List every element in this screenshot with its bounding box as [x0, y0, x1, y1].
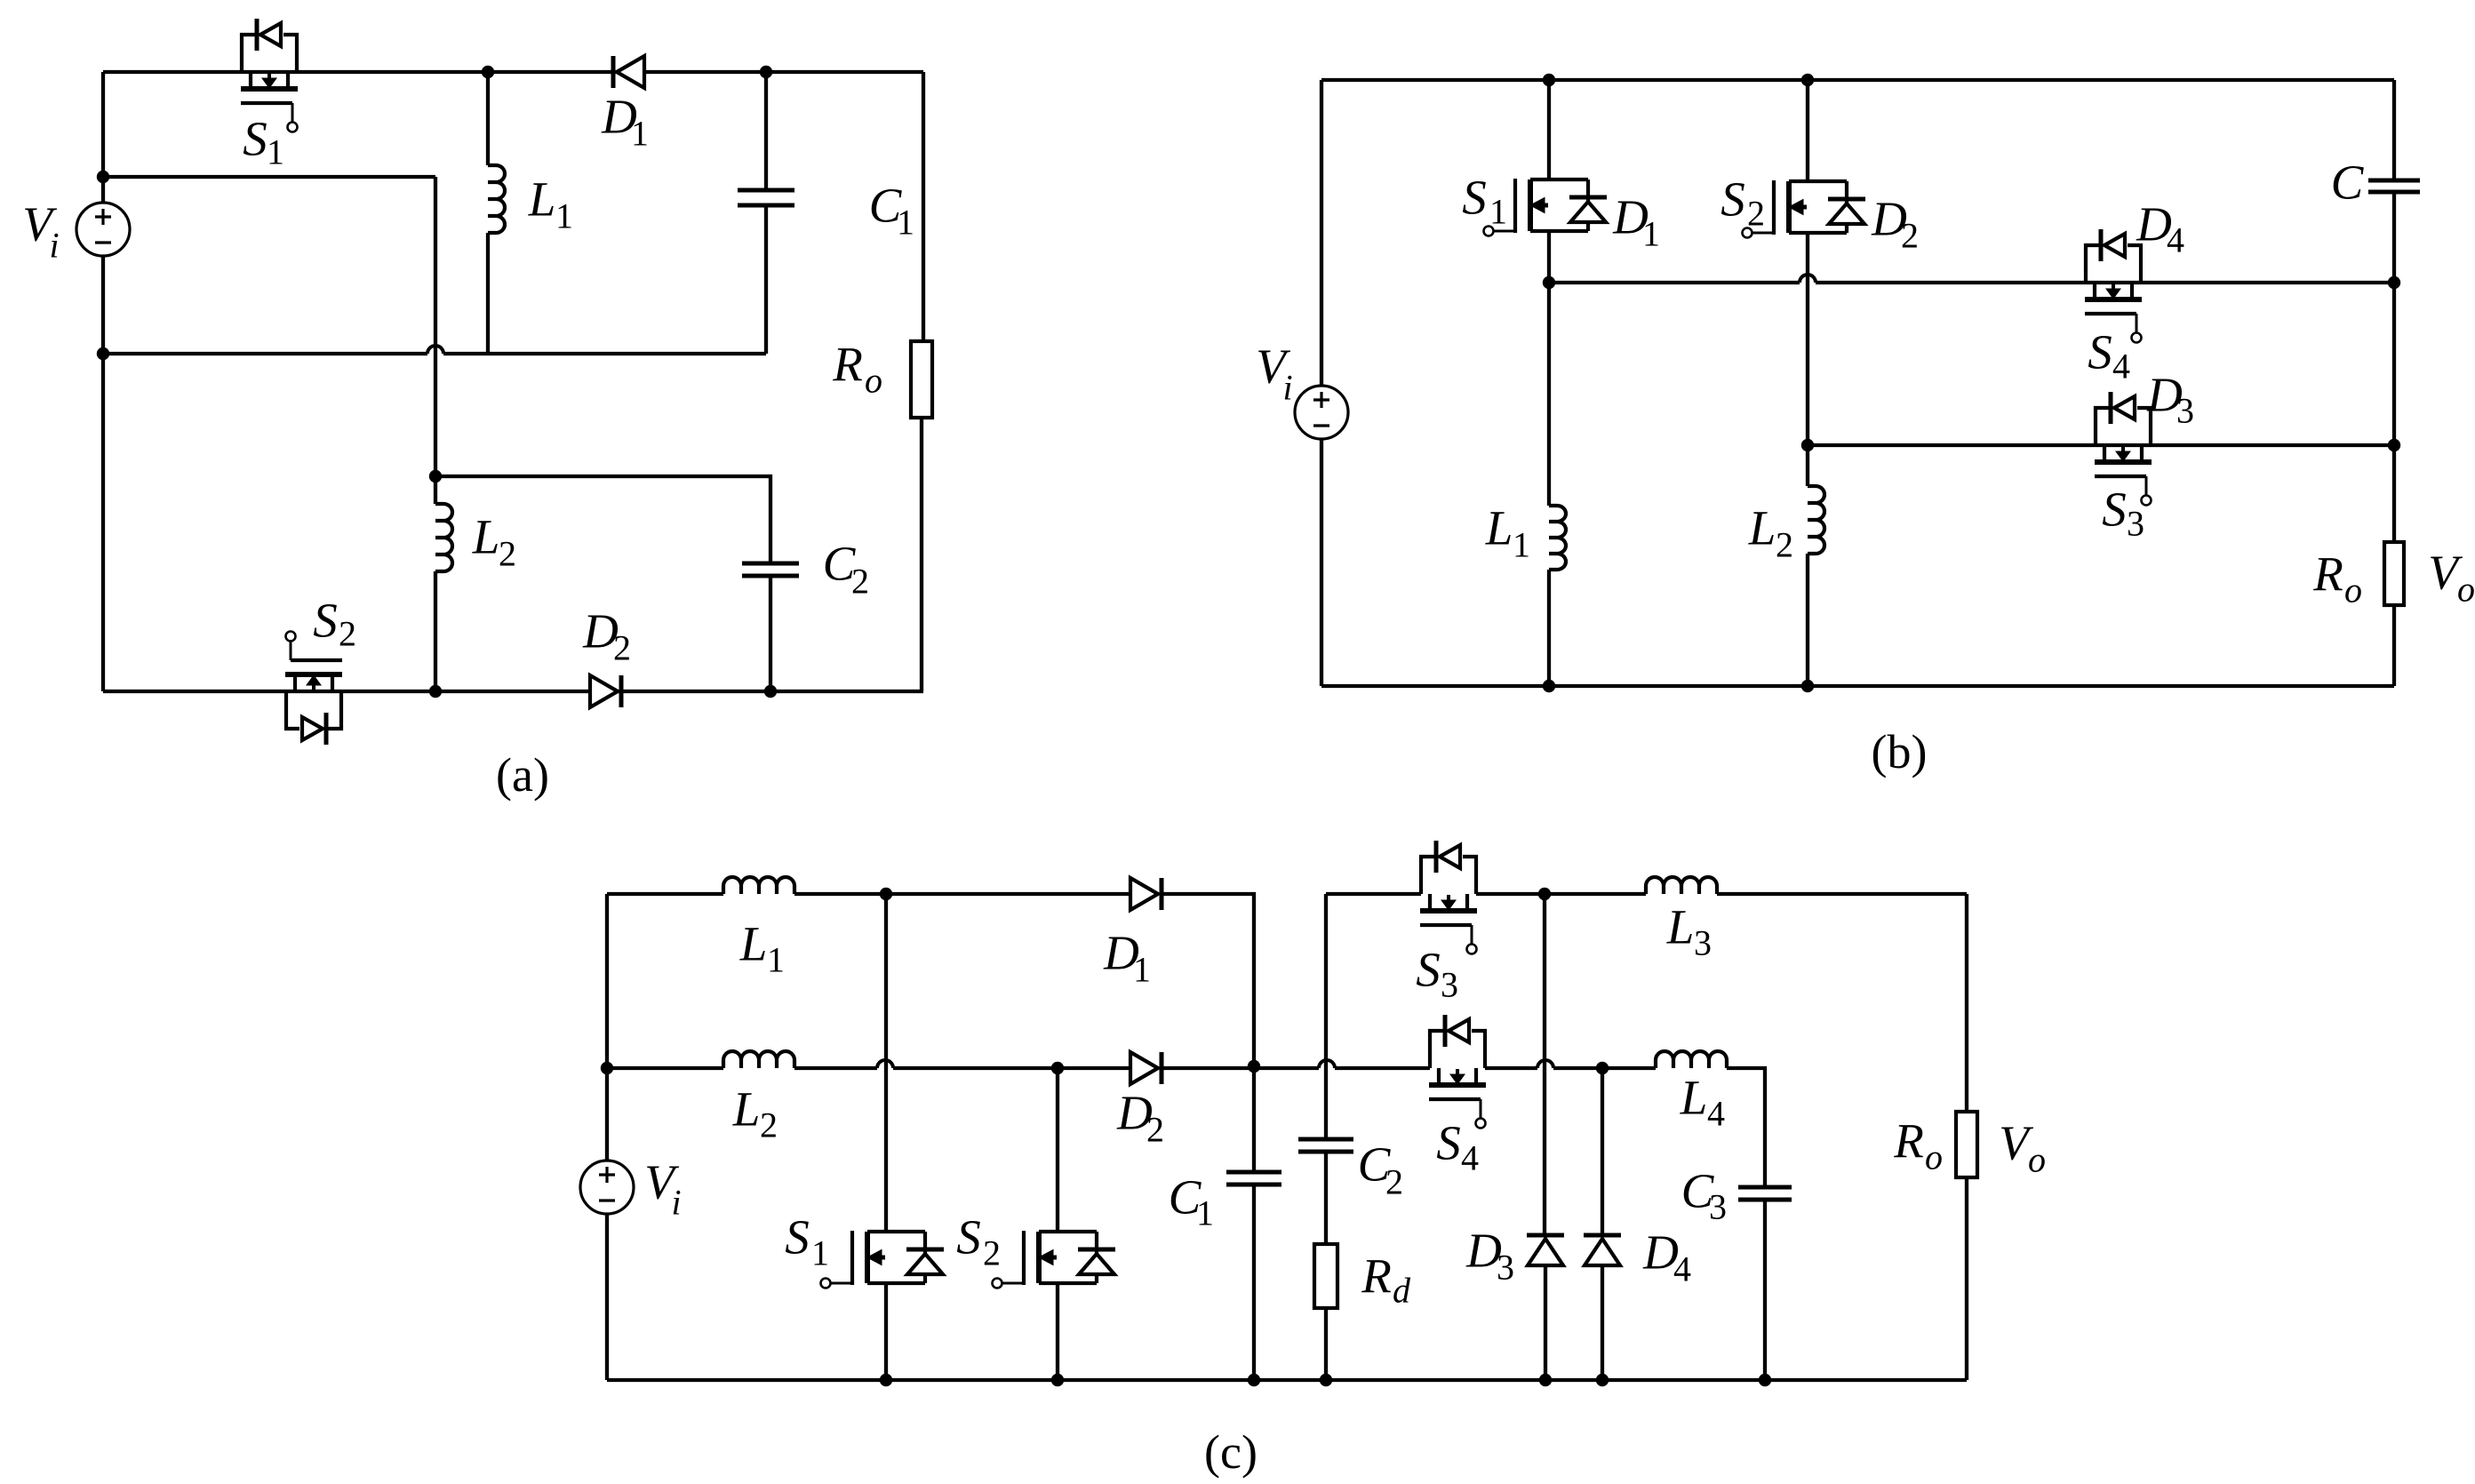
svg-text:S: S: [956, 1210, 981, 1265]
node: row2 left junction (c): [601, 1062, 613, 1074]
svg-text:L: L: [472, 510, 500, 564]
node: S2 source junction (b): [1801, 439, 1814, 451]
wire: C3 to bottom (c): [1763, 1200, 1767, 1380]
svg-text:R: R: [832, 338, 863, 392]
wire: L3 to right rail (c): [1717, 892, 1967, 896]
wire: circuit (c) right rail lower: [1965, 1177, 1968, 1380]
wire: D3 branch (c): [1543, 894, 1546, 1235]
label Vi (c): [644, 1155, 681, 1223]
node: S3 right junction (c): [1538, 888, 1551, 900]
wire: row2 L2 to hop (c): [794, 1066, 877, 1070]
wire: circuit (b) right rail bottom segment: [2392, 605, 2396, 686]
wire: D4 branch (c): [1601, 1068, 1604, 1235]
svg-text:1: 1: [267, 132, 284, 172]
wire: circuit (c) bottom rail: [607, 1378, 1967, 1382]
voltage source Vi (c): [580, 1161, 634, 1214]
transistor S2 (c): [993, 1231, 1116, 1289]
svg-text:(a): (a): [496, 748, 549, 802]
wire: S1 branch (c): [884, 894, 888, 1232]
wire: S3 row (b): [1808, 443, 2394, 447]
resistor Rd (c): [1314, 1244, 1337, 1308]
wire: S3 row left (c): [1326, 892, 1421, 896]
wire: circuit (c) left rail lower: [605, 1214, 609, 1380]
svg-text:3: 3: [1497, 1248, 1514, 1288]
svg-text:o: o: [2028, 1140, 2046, 1180]
svg-text:1: 1: [1513, 525, 1530, 565]
node: L2 bottom junction (a): [429, 685, 442, 698]
wire: Rd to bottom (c): [1324, 1308, 1328, 1380]
wire: Vi top to inner branch (a): [103, 175, 435, 179]
transistor S3 (c): [1420, 841, 1477, 954]
svg-text:1: 1: [811, 1233, 829, 1273]
node: D4 bottom junction (c): [1596, 1374, 1609, 1386]
node: C2 bottom junction (a): [764, 685, 777, 698]
wire: S1 drain branch (b): [1547, 80, 1551, 180]
label L1 (a): [528, 172, 573, 236]
svg-text:S: S: [1462, 171, 1487, 225]
node: L2 top junction (a): [429, 470, 442, 483]
node: S1 bottom junction (c): [880, 1374, 892, 1386]
svg-text:4: 4: [2112, 347, 2130, 387]
label D4 (c): [1642, 1225, 1691, 1289]
wire: L4 to C3 (c): [1727, 1068, 1765, 1187]
wire: top row L1 to D1 (c): [794, 892, 1130, 896]
capacitor C2 (c): [1298, 1139, 1353, 1152]
wire: circuit (b) left rail upper: [1320, 80, 1323, 386]
inductor L2 (b): [1808, 486, 1824, 554]
svg-text:L: L: [1748, 501, 1776, 555]
wire: circuit (a) bottom rail: [103, 690, 923, 693]
transistor S4 (b): [2085, 229, 2142, 343]
svg-text:3: 3: [2176, 391, 2194, 431]
capacitor C (b): [2368, 180, 2420, 192]
wire: circuit (a) right rail upper: [922, 72, 925, 341]
resistor Ro (a): [911, 341, 932, 418]
wire: L1 bottom (b): [1547, 570, 1551, 686]
svg-text:L: L: [732, 1082, 761, 1137]
wire: L2 top to C2 (a): [435, 476, 770, 563]
svg-text:S: S: [243, 112, 267, 166]
svg-text:(b): (b): [1872, 725, 1928, 778]
wire: circuit (b) right rail top segment: [2392, 80, 2396, 180]
wire: top row D1 to corner, down to C1 (c): [1162, 894, 1254, 1172]
diode D3 (c): [1527, 1235, 1564, 1265]
svg-text:4: 4: [1673, 1249, 1691, 1289]
wire hop: row2 over C2 branch (c): [1319, 1060, 1335, 1068]
wire: S2 drain branch (b): [1806, 80, 1809, 181]
node: L1 bottom junction (b): [1543, 680, 1555, 692]
svg-text:R: R: [1361, 1249, 1392, 1304]
svg-text:S: S: [785, 1210, 810, 1265]
svg-text:i: i: [671, 1183, 681, 1223]
wire: L1 branch upper (a): [486, 72, 490, 165]
label Ro (b): [2312, 547, 2362, 610]
capacitor C1 (c): [1226, 1172, 1281, 1185]
label S1 (b): [1462, 171, 1507, 232]
label D2 (c): [1116, 1086, 1164, 1150]
wire: circuit (b) left rail lower: [1320, 439, 1323, 686]
wire: circuit (a) top rail: [103, 70, 923, 74]
node: D4 top junction (c): [1596, 1062, 1609, 1074]
node: S2 branch top (b): [1801, 74, 1814, 86]
node: C1 bottom junction (c): [1248, 1374, 1260, 1386]
label S3 (c): [1416, 943, 1458, 1005]
label S2 (c): [956, 1210, 1001, 1273]
svg-text:2: 2: [851, 562, 869, 602]
voltage source Vi (a): [76, 203, 130, 256]
wire: C2 to Rd (c): [1324, 1152, 1328, 1244]
inductor L2 (c): [723, 1051, 794, 1068]
inductor L3 (c): [1646, 877, 1717, 894]
svg-text:4: 4: [1707, 1094, 1725, 1134]
label C3 (c): [1681, 1164, 1727, 1227]
label S1 (c): [785, 1210, 829, 1273]
label (a) caption: [496, 748, 549, 802]
label D4 (b): [2136, 197, 2184, 260]
transistor S3 (b): [2095, 392, 2152, 506]
node: S1 branch top (b): [1543, 74, 1555, 86]
wire: circuit (a) right rail lower: [920, 418, 923, 691]
wire: C1 bottom (c): [1252, 1185, 1256, 1380]
svg-text:3: 3: [2127, 504, 2144, 544]
svg-text:2: 2: [613, 628, 631, 668]
resistor Ro (c): [1956, 1112, 1977, 1177]
wire: circuit (b) right rail mid segment: [2392, 192, 2396, 542]
svg-text:1: 1: [1133, 950, 1151, 990]
label S3 (b): [2102, 483, 2144, 544]
node: Rd bottom junction (c): [1320, 1374, 1332, 1386]
diode D2 (a): [590, 675, 621, 707]
node: Vi bottom junction (a): [97, 347, 109, 360]
label S1 (a): [243, 112, 284, 172]
svg-text:2: 2: [1901, 216, 1919, 256]
svg-text:2: 2: [1747, 194, 1765, 234]
wire: circuit (c) left rail upper: [605, 894, 609, 1161]
svg-text:S: S: [1416, 943, 1441, 997]
wire: row2 D2 to C2 hop (c): [1162, 1066, 1319, 1070]
svg-text:L: L: [1485, 501, 1513, 555]
svg-text:S: S: [2088, 325, 2112, 379]
node: S4 row right junction (b): [2388, 276, 2400, 289]
svg-text:1: 1: [631, 114, 649, 154]
label D2 (b): [1871, 192, 1919, 256]
svg-text:1: 1: [1489, 192, 1507, 232]
wire: S1 to bottom (c): [884, 1283, 888, 1380]
node: C3 bottom junction (c): [1759, 1374, 1771, 1386]
label D3 (b): [2146, 368, 2194, 431]
wire: row2 left segment (c): [607, 1066, 723, 1070]
svg-text:1: 1: [1642, 214, 1660, 254]
label D1 (b): [1612, 190, 1660, 254]
svg-text:L: L: [739, 917, 768, 971]
inductor L1 (c): [723, 877, 794, 894]
svg-text:1: 1: [767, 940, 785, 980]
svg-text:2: 2: [499, 534, 516, 574]
transistor S2 (a): [285, 632, 342, 746]
label L2 (a): [472, 510, 516, 574]
wire hop: row2 over S1 branch (c): [877, 1060, 893, 1068]
node: S3 row right junction (b): [2388, 439, 2400, 451]
wire: S2 source branch (b): [1806, 233, 1809, 486]
node: D3 bottom junction (c): [1539, 1374, 1552, 1386]
label C2 (c): [1358, 1137, 1403, 1202]
label Vo (b): [2428, 546, 2475, 610]
svg-text:i: i: [49, 226, 59, 266]
wire: row2 hop to S2 junction (c): [893, 1066, 1130, 1070]
label C2 (a): [823, 537, 869, 602]
svg-text:2: 2: [760, 1105, 778, 1145]
wire hop: mid rail over vertical branch (a): [427, 346, 443, 354]
wire: C2 bottom (a): [769, 576, 772, 691]
svg-text:2: 2: [339, 614, 356, 654]
transistor S1 (b): [1484, 179, 1608, 236]
label S2 (b): [1721, 172, 1765, 234]
capacitor C2 (a): [742, 563, 799, 576]
svg-text:2: 2: [983, 1233, 1001, 1273]
svg-text:2: 2: [1385, 1162, 1403, 1202]
label D2 (a): [582, 604, 631, 668]
svg-text:d: d: [1393, 1271, 1411, 1311]
transistor S2 (b): [1743, 180, 1866, 238]
wire: C1 branch upper (a): [764, 72, 768, 190]
wire: vertical inner branch (a): [434, 177, 437, 476]
label Vi (a): [22, 197, 59, 266]
label Vi (b): [1256, 339, 1292, 408]
wire: C2 branch upper (c): [1324, 894, 1328, 1139]
node: Vi top junction (a): [97, 171, 109, 183]
label L1 (c): [739, 917, 785, 980]
diode D4 (c): [1584, 1235, 1621, 1265]
svg-text:o: o: [1925, 1137, 1943, 1177]
wire: hop to L4 junction (c): [1553, 1066, 1656, 1070]
label C (b): [2331, 156, 2365, 210]
svg-text:S: S: [2102, 483, 2127, 537]
svg-text:2: 2: [1146, 1110, 1164, 1150]
transistor S1 (a): [241, 19, 298, 132]
node: L2 bottom junction (b): [1801, 680, 1814, 692]
wire: circuit (a) mid rail left of hop: [103, 352, 427, 355]
label Rd (c): [1361, 1249, 1411, 1311]
svg-text:4: 4: [2167, 220, 2184, 260]
svg-text:L: L: [528, 172, 556, 227]
wire: circuit (c) right rail upper: [1965, 894, 1968, 1112]
wire: D3 to bottom (c): [1544, 1265, 1547, 1380]
node: S2 branch junction (c): [1051, 1062, 1064, 1074]
svg-text:2: 2: [1776, 525, 1793, 565]
wire: row2 hop to S4 (c): [1335, 1066, 1430, 1070]
transistor S1 (c): [821, 1231, 945, 1289]
wire: D4 to bottom (c): [1601, 1265, 1604, 1380]
wire: L1 branch lower (a): [486, 233, 490, 354]
label (c) caption: [1204, 1425, 1257, 1479]
svg-text:i: i: [1282, 368, 1292, 408]
svg-text:R: R: [2312, 547, 2343, 602]
node: C1 row2 junction (c): [1248, 1060, 1260, 1073]
svg-text:o: o: [2344, 570, 2362, 610]
svg-text:S: S: [313, 594, 338, 648]
inductor L4 (c): [1656, 1051, 1727, 1068]
label S4 (c): [1436, 1116, 1479, 1178]
svg-text:1: 1: [555, 196, 573, 236]
wire: circuit (b) top rail: [1321, 78, 2394, 82]
svg-text:S: S: [1436, 1116, 1461, 1170]
wire: S4 row right of hop (b): [1816, 281, 2394, 284]
node: S1 branch top junction (c): [880, 888, 892, 900]
label S4 (b): [2088, 325, 2130, 387]
svg-text:1: 1: [897, 203, 914, 243]
inductor L1 (b): [1549, 506, 1566, 570]
diode D1 (c): [1130, 878, 1162, 910]
label L2 (c): [732, 1082, 778, 1145]
node: S1 source junction (b): [1543, 276, 1555, 289]
diode D1 (a): [613, 56, 644, 88]
svg-text:o: o: [865, 361, 882, 401]
label S2 (a): [313, 594, 356, 654]
capacitor C3 (c): [1738, 1187, 1792, 1200]
svg-text:3: 3: [1709, 1187, 1727, 1227]
wire: S2 branch (c): [1056, 1068, 1059, 1232]
svg-text:C: C: [2331, 156, 2365, 210]
wire: L2 branch upper (a): [434, 476, 437, 504]
wire: circuit (a) left rail upper segment: [101, 72, 105, 203]
node: C1 top junction (a): [760, 66, 772, 78]
wire: circuit (a) mid rail right of hop: [443, 352, 766, 355]
wire: S4 row left of hop (b): [1549, 281, 1800, 284]
svg-text:L: L: [1680, 1071, 1708, 1125]
svg-text:L: L: [1666, 900, 1695, 954]
wire hop: row2 over D3 branch (c): [1537, 1060, 1553, 1068]
wire: circuit (a) left rail lower segment: [101, 256, 105, 691]
label L3 (c): [1666, 900, 1712, 963]
diode D2 (c): [1130, 1052, 1162, 1084]
wire hop: S4 row over S2 branch (b): [1800, 275, 1816, 283]
svg-text:4: 4: [1461, 1138, 1479, 1178]
svg-text:3: 3: [1694, 923, 1712, 963]
label L1 (b): [1485, 501, 1530, 565]
node: L1 top junction (a): [482, 66, 494, 78]
voltage source Vi (b): [1295, 386, 1348, 439]
svg-text:o: o: [2457, 570, 2475, 610]
wire: S1 source branch (b): [1547, 231, 1551, 506]
inductor L2 (a): [435, 504, 452, 571]
wire: circuit (b) bottom rail: [1321, 684, 2394, 688]
wire: S3 to L3 junction (c): [1476, 892, 1646, 896]
label Ro (c): [1893, 1114, 1943, 1177]
wire: top row left segment (c): [607, 892, 723, 896]
label Vo (c): [1999, 1116, 2046, 1180]
label D1 (c): [1103, 926, 1151, 990]
label L4 (c): [1680, 1071, 1725, 1134]
svg-text:1: 1: [1196, 1193, 1214, 1233]
svg-text:(c): (c): [1204, 1425, 1257, 1479]
wire: L2 branch lower (a): [434, 571, 437, 691]
transistor S4 (c): [1429, 1015, 1486, 1129]
wire: S2 to bottom (c): [1056, 1283, 1059, 1380]
label D3 (c): [1465, 1224, 1514, 1288]
wire: S4 to hop (c): [1485, 1066, 1537, 1070]
resistor Ro (b): [2384, 542, 2404, 605]
svg-text:3: 3: [1441, 965, 1458, 1005]
capacitor C1 (a): [738, 190, 794, 205]
inductor L1 (a): [488, 165, 505, 233]
label C1 (c): [1169, 1170, 1214, 1233]
label (b) caption: [1872, 725, 1928, 778]
wire: C1 branch lower (a): [764, 205, 768, 354]
label L2 (b): [1748, 501, 1793, 565]
svg-text:S: S: [1721, 172, 1745, 227]
wire: L2 bottom (b): [1806, 554, 1809, 686]
label D1 (a): [601, 90, 649, 154]
label Ro (a): [832, 338, 882, 401]
svg-text:R: R: [1893, 1114, 1924, 1169]
node: S2 bottom junction (c): [1051, 1374, 1064, 1386]
label C1 (a): [869, 179, 914, 243]
